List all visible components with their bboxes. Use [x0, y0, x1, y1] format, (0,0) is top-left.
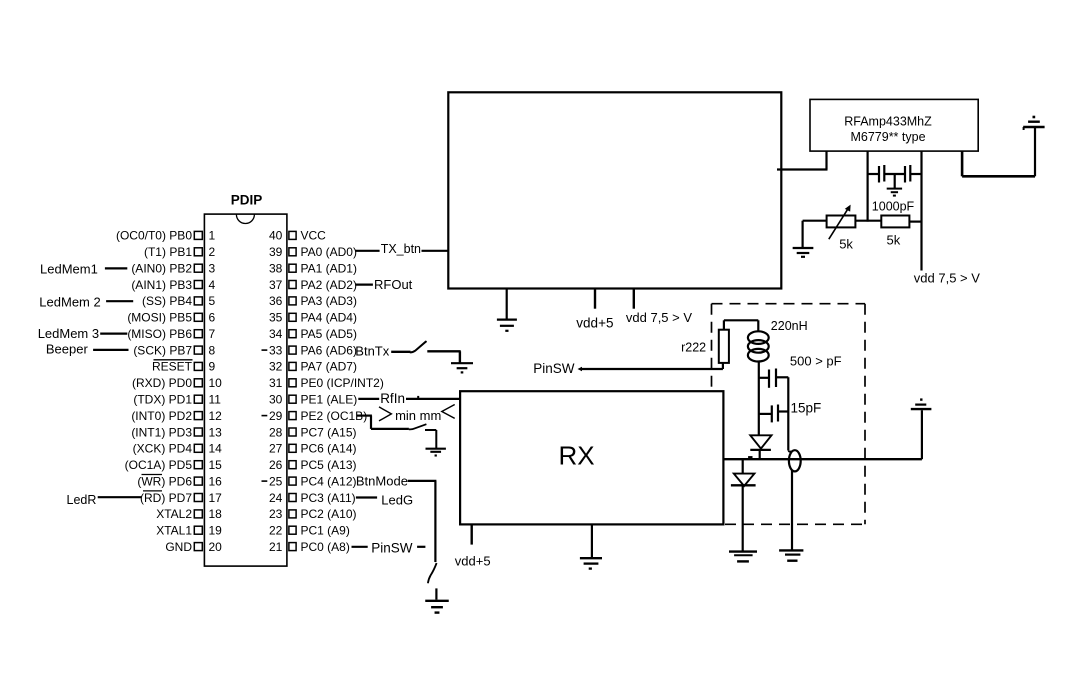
svg-text:13: 13: [209, 425, 223, 439]
pin 2 (T1) PB1: [144, 245, 216, 259]
svg-text:r222: r222: [681, 341, 706, 355]
svg-text:XTAL2: XTAL2: [156, 507, 192, 521]
IC U1 PDIP body: [204, 214, 287, 566]
svg-text:GND: GND: [165, 540, 192, 554]
capacitor C4 15pF: [759, 405, 789, 423]
svg-text:(OC0/T0) PB0: (OC0/T0) PB0: [116, 229, 192, 243]
svg-text:PA1 (AD1): PA1 (AD1): [301, 262, 357, 276]
ground G1 under TX: [497, 289, 517, 331]
svg-text:PC5 (A13): PC5 (A13): [301, 458, 357, 472]
svg-text:(WR) PD6: (WR) PD6: [137, 474, 192, 488]
wire caps right down to hop: [787, 377, 789, 450]
resistor R2 5k body: [881, 216, 909, 228]
wire RfIn to RX box: [406, 396, 460, 399]
svg-text:34: 34: [269, 327, 283, 341]
svg-text:(INT1) PD3: (INT1) PD3: [131, 425, 192, 439]
pin 15 (OC1A) PD5: [125, 458, 223, 472]
svg-text:(XCK) PD4: (XCK) PD4: [133, 442, 193, 456]
wire hop loop over main wire: [788, 450, 800, 471]
svg-text:(MISO) PB6: (MISO) PB6: [127, 327, 192, 341]
net TX_btn label: [381, 242, 421, 256]
wire RFAmp pin C vdd: [920, 151, 922, 270]
ground G6 (D2): [729, 552, 757, 562]
pin 34 PA5 (AD5): [269, 327, 357, 341]
svg-text:8: 8: [209, 343, 216, 357]
svg-text:33: 33: [269, 343, 283, 357]
svg-text:(AIN0) PB2: (AIN0) PB2: [131, 262, 192, 276]
svg-text:5k: 5k: [887, 232, 901, 247]
pin 40 VCC: [269, 229, 326, 243]
svg-text:PA3 (AD3): PA3 (AD3): [301, 294, 357, 308]
pin 24 PC3 (A11): [269, 491, 356, 505]
svg-text:9: 9: [209, 360, 216, 374]
switch S1 BtnTx stub: [391, 351, 410, 353]
svg-text:PC3 (A11): PC3 (A11): [301, 491, 356, 505]
wire Beeper to pin 8: [93, 349, 128, 351]
svg-text:1000pF: 1000pF: [872, 200, 915, 214]
wire pot to pin B node: [855, 220, 881, 222]
capacitor C1 (1000pF pair, left): [868, 165, 905, 183]
pin 6 (MOSI) PB5: [127, 311, 215, 325]
svg-text:BtnMode: BtnMode: [356, 474, 408, 489]
pin 10 (RXD) PD0: [132, 376, 222, 390]
ground G9 between C1 C2: [887, 174, 902, 196]
node junction dot on main wire: [749, 457, 752, 459]
svg-text:24: 24: [269, 491, 283, 505]
pin 28 PC7 (A15): [269, 425, 357, 439]
svg-text:(SCK) PB7: (SCK) PB7: [133, 343, 192, 357]
svg-text:PA6 (AD6): PA6 (AD6): [301, 343, 357, 357]
svg-text:PC2 (A10): PC2 (A10): [301, 507, 357, 521]
pin 35 PA4 (AD4): [269, 311, 357, 325]
svg-text:36: 36: [269, 294, 283, 308]
pin 27 PC6 (A14): [269, 442, 357, 456]
svg-text:7: 7: [209, 327, 216, 341]
svg-text:26: 26: [269, 458, 283, 472]
pin 18 XTAL2: [156, 507, 222, 521]
wire BtnMode down to switch S3: [408, 481, 437, 562]
svg-text:3: 3: [209, 262, 216, 276]
pin 11 (TDX) PD1: [133, 393, 221, 407]
label 220nH: [771, 319, 808, 333]
wire PinSW to r222: [578, 363, 723, 371]
net RfIn label: [380, 391, 405, 406]
svg-text:22: 22: [269, 524, 283, 538]
svg-text:(OC1A) PD5: (OC1A) PD5: [125, 458, 193, 472]
svg-text:35: 35: [269, 311, 283, 325]
wire vdd+5 pin of TX: [594, 289, 596, 309]
pin 9 RESET: [152, 360, 216, 374]
label r222: [681, 341, 706, 355]
wire S3 to ground G4: [435, 588, 437, 599]
svg-text:27: 27: [269, 442, 283, 456]
net BtnTx label (pin 33): [355, 343, 389, 358]
pin 1 (OC0/T0) PB0: [116, 229, 216, 243]
svg-text:RFOut: RFOut: [374, 277, 413, 292]
svg-text:14: 14: [209, 442, 223, 456]
wire LedMem 3 to pin 7: [100, 333, 127, 335]
pin 19 XTAL1: [156, 524, 222, 538]
svg-text:38: 38: [269, 262, 283, 276]
ground G8 (pot): [793, 248, 814, 257]
svg-text:LedMem1: LedMem1: [40, 262, 98, 277]
svg-text:Beeper: Beeper: [46, 341, 89, 356]
svg-text:31: 31: [269, 376, 283, 390]
wire pin 30 to RfIn: [358, 398, 379, 400]
svg-text:29: 29: [269, 409, 283, 423]
svg-text:37: 37: [269, 278, 283, 292]
pin 38 PA1 (AD1): [269, 262, 357, 276]
wire pin 39 to TX_btn: [355, 250, 379, 252]
svg-text:6: 6: [209, 311, 216, 325]
label 5k (pot): [839, 237, 853, 252]
svg-text:15pF: 15pF: [791, 400, 822, 415]
svg-text:(RXD) PD0: (RXD) PD0: [132, 376, 192, 390]
wire pin 29 (PE2) down-right: [357, 416, 409, 429]
wire pin 25 BtnMode: [356, 474, 408, 489]
switch S2 (min mm) blade: [409, 424, 427, 429]
wire RFAmp pin B down: [866, 151, 868, 222]
svg-text:vdd+5: vdd+5: [576, 315, 613, 330]
wire RFAmp pin D to antenna: [962, 127, 1035, 176]
net Beeper label: [46, 341, 89, 356]
svg-text:PC7 (A15): PC7 (A15): [301, 425, 357, 439]
pin 25 PC4 (A12): [262, 474, 357, 488]
dashed box (RF input filter): [712, 304, 866, 525]
svg-text:500 > pF: 500 > pF: [790, 353, 842, 368]
pin 33 PA6 (AD6): [262, 343, 357, 357]
svg-text:PinSW: PinSW: [371, 541, 413, 556]
pin 31 PE0 (ICP/INT2): [269, 376, 384, 390]
pin 29 PE2 (OC1B): [262, 409, 368, 423]
block RX (receiver): [460, 391, 723, 524]
wire S1 to ground: [427, 351, 460, 363]
svg-text:39: 39: [269, 245, 283, 259]
antenna A1 (top right): [1023, 117, 1044, 130]
svg-text:TX_btn: TX_btn: [381, 242, 421, 256]
pin 39 PA0 (AD0): [269, 245, 357, 259]
svg-text:M6779** type: M6779** type: [850, 130, 925, 144]
svg-text:25: 25: [269, 474, 283, 488]
svg-text:(T1) PB1: (T1) PB1: [144, 245, 192, 259]
pin 3 (AIN0) PB2: [131, 262, 215, 276]
pin 20 GND: [165, 540, 222, 554]
svg-text:vdd+5: vdd+5: [455, 553, 491, 568]
svg-text:vdd 7,5 > V: vdd 7,5 > V: [626, 310, 692, 325]
label 1000pF: [872, 200, 915, 214]
svg-text:23: 23: [269, 507, 283, 521]
svg-text:min mm: min mm: [395, 408, 441, 423]
pin 30 PE1 (ALE): [269, 393, 357, 407]
ground G4 (BtnMode switch): [425, 601, 449, 613]
pin 21 PC0 (A8): [269, 540, 350, 554]
svg-text:PA4 (AD4): PA4 (AD4): [301, 311, 357, 325]
svg-text:PC1 (A9): PC1 (A9): [301, 524, 350, 538]
svg-text:vdd 7,5 > V: vdd 7,5 > V: [914, 270, 980, 285]
capacitor C3 500>pF: [759, 369, 789, 388]
antenna A2 (RX): [911, 400, 932, 460]
svg-text:PC4 (A12): PC4 (A12): [301, 474, 357, 488]
svg-text:28: 28: [269, 425, 283, 439]
svg-text:1: 1: [209, 229, 216, 243]
wire R2 right to vdd line: [909, 221, 921, 223]
block U2 RFAmp433MhZ: [810, 99, 978, 151]
svg-text:12: 12: [209, 409, 223, 423]
net PinSW label (mid): [533, 361, 575, 376]
pin 17 (RD) PD7: [140, 491, 222, 505]
ground G5 under RX: [580, 524, 602, 568]
wire hop bottom to ground G7: [791, 470, 793, 550]
inductor L1 220nH: [748, 331, 769, 361]
wire vdd 7,5 pin of TX: [633, 289, 635, 309]
svg-text:11: 11: [209, 393, 222, 407]
svg-text:30: 30: [269, 393, 283, 407]
pin 14 (XCK) PD4: [133, 442, 223, 456]
svg-text:(SS) PB4: (SS) PB4: [142, 294, 192, 308]
svg-text:(AIN1) PB3: (AIN1) PB3: [131, 278, 192, 292]
pin 5 (SS) PB4: [142, 294, 216, 308]
wire RX out main (to antenna A2): [723, 458, 922, 460]
net LedR label: [67, 493, 97, 507]
svg-text:5k: 5k: [839, 237, 853, 252]
wire pin 37 to RFOut: [355, 284, 373, 286]
net LedMem 3 label: [38, 326, 99, 341]
svg-text:PE0 (ICP/INT2): PE0 (ICP/INT2): [301, 376, 384, 390]
svg-text:(INT0) PD2: (INT0) PD2: [131, 409, 192, 423]
wire inductor bottom down to diode D1: [758, 362, 760, 436]
svg-text:PinSW: PinSW: [533, 361, 575, 376]
svg-text:LedG: LedG: [381, 492, 413, 507]
ground G3 (min mm switch): [426, 449, 446, 456]
pin 23 PC2 (A10): [269, 507, 357, 521]
pin 37 PA2 (AD2): [269, 278, 357, 292]
switch S1 BtnTx blade: [410, 342, 427, 353]
pin 32 PA7 (AD7): [269, 360, 357, 374]
wire S2 to ground: [425, 430, 436, 448]
svg-text:40: 40: [269, 229, 283, 243]
net vdd+5 label (RX): [455, 553, 491, 568]
block TX (transmitter): [448, 92, 781, 288]
svg-text:PDIP: PDIP: [231, 193, 263, 208]
svg-text:PE1 (ALE): PE1 (ALE): [301, 393, 358, 407]
svg-text:4: 4: [209, 278, 216, 292]
net min mm sensor label: [379, 405, 455, 424]
pin 16 (WR) PD6: [137, 474, 222, 488]
pin 4 (AIN1) PB3: [131, 278, 215, 292]
net vdd+5 label (TX): [576, 315, 613, 330]
svg-text:LedMem 3: LedMem 3: [38, 326, 99, 341]
net PinSW label (pin 21): [352, 541, 426, 556]
wire r222 top to inductor top: [724, 320, 758, 332]
pin 7 (MISO) PB6: [127, 327, 215, 341]
wire LedMem1 to pin 3: [105, 267, 127, 269]
potentiometer RV1 5k body: [827, 216, 856, 228]
net vdd 7,5 > V label (TX): [626, 310, 692, 325]
net LedG label (pin 24): [356, 492, 413, 507]
pin 12 (INT0) PD2: [131, 409, 222, 423]
svg-text:RX: RX: [559, 440, 595, 470]
pin 22 PC1 (A9): [269, 524, 350, 538]
wire RX vdd+5 pin: [471, 524, 473, 544]
label RX: [559, 440, 595, 470]
svg-text:17: 17: [209, 491, 223, 505]
potentiometer RV1 arrow: [829, 205, 851, 240]
svg-text:(RD) PD7: (RD) PD7: [140, 491, 192, 505]
ground G7: [779, 550, 803, 560]
svg-text:RFAmp433MhZ: RFAmp433MhZ: [844, 114, 932, 128]
wire LedR to pin 17: [98, 496, 142, 498]
svg-text:19: 19: [209, 524, 223, 538]
svg-text:(TDX) PD1: (TDX) PD1: [133, 393, 192, 407]
svg-text:LedR: LedR: [67, 493, 97, 507]
ground G2 (BtnTx switch): [451, 363, 473, 372]
svg-text:RESET: RESET: [152, 360, 193, 374]
svg-text:10: 10: [209, 376, 223, 390]
net LedMem1 label: [40, 262, 98, 277]
svg-text:15: 15: [209, 458, 223, 472]
wire pot left to ground: [803, 221, 827, 248]
pin 13 (INT1) PD3: [131, 425, 222, 439]
wire LedMem 2 to pin 5: [106, 300, 133, 302]
svg-text:2: 2: [209, 245, 216, 259]
diode D1: [750, 435, 771, 459]
svg-text:RfIn: RfIn: [380, 391, 405, 406]
net LedMem 2 label: [39, 294, 100, 309]
svg-text:18: 18: [209, 507, 223, 521]
resistor R3 r222 body: [719, 330, 729, 363]
svg-text:5: 5: [209, 294, 216, 308]
svg-text:PA7 (AD7): PA7 (AD7): [301, 360, 357, 374]
pin 26 PC5 (A13): [269, 458, 357, 472]
diode D2: [731, 459, 756, 551]
wire TX_btn to TX box: [422, 250, 449, 252]
svg-text:VCC: VCC: [301, 229, 327, 243]
capacitor C2 (1000pF pair, right): [905, 165, 922, 183]
svg-text:PA0 (AD0): PA0 (AD0): [301, 245, 357, 259]
svg-text:LedMem 2: LedMem 2: [39, 294, 100, 309]
label 500 > pF: [790, 353, 842, 368]
label 15pF: [791, 400, 822, 415]
IC U1 title PDIP: [231, 193, 263, 208]
svg-text:PA5 (AD5): PA5 (AD5): [301, 327, 357, 341]
svg-text:16: 16: [209, 474, 223, 488]
net RFOut label: [374, 277, 413, 292]
svg-text:XTAL1: XTAL1: [156, 524, 192, 538]
label 5k (R2): [887, 232, 901, 247]
svg-text:PC0 (A8): PC0 (A8): [301, 540, 350, 554]
svg-text:32: 32: [269, 360, 283, 374]
svg-text:BtnTx: BtnTx: [355, 343, 389, 358]
svg-text:(MOSI) PB5: (MOSI) PB5: [127, 311, 192, 325]
svg-text:21: 21: [269, 540, 283, 554]
switch S3 blade: [428, 563, 437, 583]
svg-text:20: 20: [209, 540, 223, 554]
wire TX RF out to RFAmp: [777, 151, 828, 169]
pin 8 (SCK) PB7: [133, 343, 215, 357]
svg-text:PC6 (A14): PC6 (A14): [301, 442, 357, 456]
svg-text:220nH: 220nH: [771, 319, 808, 333]
svg-text:PA2 (AD2): PA2 (AD2): [301, 278, 357, 292]
pin 36 PA3 (AD3): [269, 294, 357, 308]
net vdd 7,5 > V label (RFAmp): [914, 270, 980, 285]
